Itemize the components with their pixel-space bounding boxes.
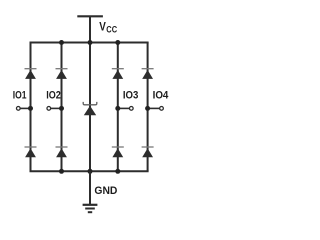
junction node IO4 [145, 106, 150, 111]
diode D3 upper (IO3 to VCC) [112, 69, 124, 79]
svg-text:IO2: IO2 [46, 90, 61, 102]
svg-text:V: V [99, 20, 106, 34]
diode D4 upper (IO4 to VCC) [142, 69, 154, 79]
wire center zener column [89, 43, 91, 172]
svg-text:IO1: IO1 [13, 90, 27, 102]
ground symbol [83, 205, 98, 212]
label VCC [99, 20, 117, 35]
junction top rail at center [88, 40, 93, 45]
terminal pin IO2 [47, 107, 51, 111]
junction bottom rail at IO3 [115, 169, 120, 174]
junction node IO3 [115, 106, 120, 111]
diode D8 lower (GND to IO4) [142, 147, 154, 157]
svg-text:IO4: IO4 [153, 90, 169, 102]
wire IO4 terminal stub [148, 107, 162, 109]
wire top VCC rail [30, 42, 149, 44]
svg-text:GND: GND [94, 185, 117, 197]
wire VCC stem [89, 16, 91, 42]
wire IO4 column [147, 43, 149, 172]
junction top rail at IO3 [115, 40, 120, 45]
wire IO3 terminal stub [118, 107, 132, 109]
wire IO1 terminal stub [18, 107, 30, 109]
diode D6 lower (GND to IO2) [56, 147, 68, 157]
junction node IO1 [28, 106, 33, 111]
wire bottom GND rail [30, 170, 149, 172]
wire IO3 column [117, 43, 119, 172]
junction bottom rail at center [88, 169, 93, 174]
svg-text:IO3: IO3 [123, 90, 138, 102]
wire IO2 column [61, 43, 63, 172]
terminal pin IO1 [16, 107, 20, 111]
diode D1 upper (IO1 to VCC) [25, 69, 37, 79]
wire IO2 terminal stub [49, 107, 62, 109]
junction bottom rail at IO2 [59, 169, 64, 174]
zener diode DZ (VCC clamp) [83, 102, 97, 115]
wire GND stem [89, 171, 91, 204]
terminal pin IO3 [129, 107, 133, 111]
svg-text:CC: CC [106, 25, 117, 35]
diode D5 lower (GND to IO1) [25, 147, 37, 157]
terminal pin IO4 [160, 107, 164, 111]
junction node IO2 [59, 106, 64, 111]
diode D7 lower (GND to IO3) [112, 147, 124, 157]
junction top rail at IO2 [59, 40, 64, 45]
diode D2 upper (IO2 to VCC) [56, 69, 68, 79]
VCC supply bar [77, 15, 103, 17]
wire IO1 column [30, 43, 32, 172]
